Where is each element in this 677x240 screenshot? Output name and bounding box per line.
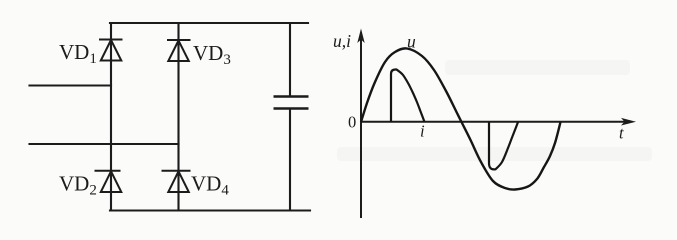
- svg-text:u: u: [407, 32, 416, 52]
- wire: upper AC input: [30, 84, 112, 86]
- waveform plot: x-axis (t axis): [361, 121, 626, 123]
- svg-text:i: i: [420, 122, 425, 141]
- wire: lower AC input: [30, 143, 179, 145]
- wire: bottom rail: [110, 209, 310, 211]
- capacitor C (filter capacitor): [274, 97, 309, 109]
- wire: left vertical branch: [110, 23, 112, 211]
- svg-text:t: t: [619, 124, 624, 143]
- ghost smudge row upper right: [445, 60, 630, 75]
- svg-text:u,i: u,i: [333, 31, 351, 51]
- y-axis arrowhead: [357, 29, 364, 44]
- wire: top rail: [110, 22, 308, 24]
- diode VD3: [167, 40, 191, 61]
- wire: middle vertical branch: [177, 23, 179, 211]
- diode VD1: [99, 40, 123, 61]
- wire: right vertical lower (from capacitor): [289, 109, 291, 211]
- waveform plot: y-axis: [360, 34, 362, 218]
- curve i positive pulse: [391, 70, 425, 123]
- diode VD4: [162, 171, 191, 192]
- x-axis arrowhead: [621, 118, 636, 126]
- curve u (full sine cycle): [361, 48, 561, 189]
- curve i negative pulse: [489, 122, 518, 169]
- svg-text:0: 0: [348, 113, 356, 132]
- ghost smudge row lower right: [337, 147, 652, 161]
- diode VD2: [95, 171, 122, 192]
- wire: right vertical upper (to capacitor): [289, 23, 291, 97]
